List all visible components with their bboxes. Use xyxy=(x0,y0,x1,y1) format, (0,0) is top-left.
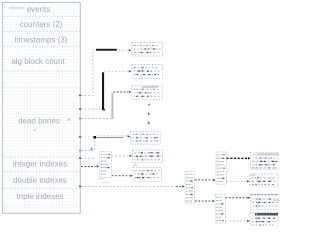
edge tick y149.8 xyxy=(79,150,81,152)
record box 3 xyxy=(132,85,162,99)
row separator y31.5 xyxy=(3,31,80,33)
edge tick y117.7 xyxy=(79,118,81,120)
record box 1 xyxy=(132,43,163,57)
wire bottom connector to result box R4 xyxy=(226,220,248,222)
arrowhead into record box 4 xyxy=(128,135,131,137)
wire W1 events to record box 1 xyxy=(81,50,128,95)
arrowhead into R2 xyxy=(247,180,250,182)
title icon dash xyxy=(9,7,25,8)
wire stub y158 xyxy=(81,157,95,159)
small mark near junction xyxy=(91,148,93,150)
tiny mark under dead bones xyxy=(33,130,36,131)
result box R2 xyxy=(250,174,278,186)
arrowhead into record box 3 xyxy=(129,91,132,93)
wire W2 events edge to bus bar xyxy=(81,108,103,110)
faint label under tall node box xyxy=(98,178,104,179)
svg-text:events: events xyxy=(27,5,51,14)
record box 6 xyxy=(133,168,162,182)
wire bottom connector to result box R3 xyxy=(226,197,249,199)
arrowhead into intermediate box xyxy=(182,185,185,187)
wire W2 run to record box 2 xyxy=(105,70,129,72)
arrowhead into R3 xyxy=(248,196,251,198)
long wire to intermediate box xyxy=(81,185,176,187)
wire intermediate box to bottom connector box xyxy=(195,200,212,202)
svg-text:timestamps (3): timestamps (3) xyxy=(15,35,68,44)
edge tick y136.2 xyxy=(79,136,81,138)
bold wire top connector to result box R1 xyxy=(227,157,249,159)
svg-text:counters (2): counters (2) xyxy=(20,20,63,29)
svg-text:dead bones: dead bones xyxy=(18,116,60,125)
light blob in R3 xyxy=(273,199,279,201)
wire W3 events edge to gray bus bar xyxy=(81,118,112,120)
black bus bar xyxy=(102,73,104,110)
wire tall node box to record box 5 xyxy=(112,155,129,157)
intermediate node box xyxy=(185,172,195,203)
record box 2 xyxy=(132,65,163,79)
wire W4 stub y137 xyxy=(81,136,93,138)
bus bar bottom mark xyxy=(103,109,105,111)
wire into tall node box xyxy=(81,166,96,168)
wire intermediate box to top connector box xyxy=(195,179,213,181)
wire W3 run to record box 3 xyxy=(114,91,129,93)
row separator y157 xyxy=(3,156,80,158)
result box R4 xyxy=(250,212,278,226)
svg-text:alg block count: alg block count xyxy=(11,57,65,66)
row separator y188.3 xyxy=(3,187,80,189)
row separator y16.5 xyxy=(3,16,80,18)
svg-text:double indexes: double indexes xyxy=(13,176,67,185)
row separator y171.5 xyxy=(3,171,80,173)
gray bus bar xyxy=(111,93,113,119)
edge tick y185.6 xyxy=(79,186,81,188)
row separator y206 xyxy=(3,205,80,207)
tiny trailing mark after dead bones xyxy=(68,119,71,121)
wire W4 upper dashed run xyxy=(96,135,127,137)
svg-text:triple indexes: triple indexes xyxy=(16,192,63,201)
arrowhead into tall node box xyxy=(97,165,100,167)
edge tick y157.5 xyxy=(79,158,81,160)
junction square xyxy=(93,136,96,139)
edge tick y108.2 xyxy=(79,108,81,110)
arrowhead into R1 xyxy=(248,157,251,159)
wire top connector to result box R2 xyxy=(227,180,248,182)
arrowhead into top connector box xyxy=(213,179,216,181)
wire W4 elbow from events edge to junction xyxy=(81,139,95,151)
row separator y87.3 xyxy=(3,86,80,88)
row separator y46.5 xyxy=(3,46,80,48)
vertical ellipsis mark 2 xyxy=(148,113,149,115)
arrowhead into record box 1 xyxy=(129,49,132,51)
tall node box xyxy=(100,152,112,178)
arrowhead into record box 5 xyxy=(129,155,132,157)
wire tall node box to record box 6 xyxy=(112,175,130,177)
arrowhead into R4 xyxy=(247,220,250,222)
top connector box xyxy=(216,152,226,184)
arrowhead into bottom connector box xyxy=(212,200,215,202)
arrowhead into record box 2 xyxy=(129,70,132,72)
record box 5 xyxy=(132,150,162,163)
edge tick y94.7 xyxy=(79,95,81,97)
record box 4 xyxy=(130,132,160,145)
bus bar top junction dot xyxy=(102,72,104,74)
table events (main left box) xyxy=(3,3,81,214)
vertical ellipsis mark 1 xyxy=(148,104,151,106)
light blob in R2 xyxy=(269,177,274,179)
vertical ellipsis mark 3 xyxy=(148,121,150,124)
result box R1 xyxy=(251,152,280,169)
result box R3 xyxy=(250,195,279,210)
svg-text:integer indexes: integer indexes xyxy=(13,160,67,169)
faint marks under record box 5 xyxy=(133,164,137,166)
row separator y71 xyxy=(3,70,80,72)
arrowhead into record box 6 xyxy=(130,174,133,176)
bottom connector box xyxy=(215,195,225,224)
wire W4 solid run to record box 4 xyxy=(96,137,123,139)
wire W1 thick black overlay xyxy=(96,49,117,51)
